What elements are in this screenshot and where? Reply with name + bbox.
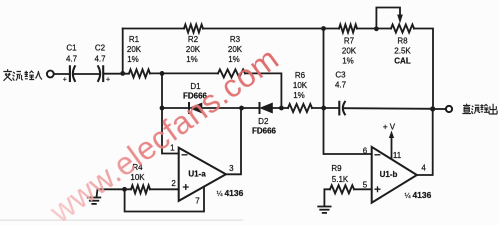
svg-text:C1: C1 [66, 44, 77, 53]
svg-text:7: 7 [195, 197, 200, 206]
node A junction [120, 71, 125, 76]
ground symbol right [318, 207, 330, 213]
label R8 value [394, 37, 411, 66]
svg-text:2.5K: 2.5K [394, 47, 411, 56]
svg-text:CAL: CAL [394, 57, 411, 66]
node B junction [160, 71, 165, 76]
resistor R3 [218, 69, 245, 77]
diode D2 FD666 [260, 103, 273, 113]
label R4 value [130, 163, 145, 182]
label R7 value [342, 37, 357, 66]
svg-text:R8: R8 [397, 37, 408, 46]
wire D1 to D2 [202, 107, 260, 109]
op-amp U1-a [179, 148, 226, 201]
svg-text:1%: 1% [293, 91, 305, 100]
wire R9 to U1-b pin 5 [354, 188, 372, 190]
svg-text:C3: C3 [335, 71, 346, 80]
diode D1 FD666 [189, 103, 202, 113]
label AC input 交流输入 [3, 69, 42, 81]
label C2 value [94, 44, 106, 64]
node R7-R8 junction [374, 26, 379, 31]
node D junction [279, 106, 284, 111]
svg-text:R1: R1 [129, 35, 140, 44]
label R2 value [186, 35, 201, 64]
ground symbol left [88, 189, 101, 204]
wire U1-a output to diode rail [226, 108, 241, 174]
label R9 value [331, 164, 349, 184]
svg-text:10K: 10K [293, 81, 308, 90]
watermark www.elecfans.com [43, 40, 286, 230]
resistor R2 [184, 25, 203, 33]
label R6 value [293, 71, 308, 100]
label C3 value [335, 71, 347, 90]
svg-text:+: + [63, 77, 67, 84]
wire R1 to node B to R3 [150, 72, 218, 74]
svg-text:20K: 20K [228, 45, 243, 54]
capacitor C3 [339, 102, 345, 115]
svg-text:¼ 4136: ¼ 4136 [217, 188, 244, 198]
svg-text:20K: 20K [342, 47, 357, 56]
label D1 FD666 [183, 82, 208, 101]
svg-text:C2: C2 [95, 44, 106, 53]
wire R8 wiper strap [376, 8, 400, 29]
U1-a plus sign [183, 184, 189, 190]
wire C1 to C2 [75, 73, 99, 75]
label R3 value [228, 35, 243, 64]
wire D2 to R6 [272, 107, 288, 109]
svg-text:R6: R6 [295, 71, 306, 80]
wire R7 to R8 [357, 28, 391, 30]
svg-text:R2: R2 [188, 35, 199, 44]
wire top rail middle segment [203, 28, 339, 30]
label C1 value [66, 44, 78, 64]
label D2 FD666 [252, 117, 277, 136]
wire U1-a pin 7 loop [125, 187, 204, 212]
svg-text:5.1K: 5.1K [332, 175, 349, 184]
svg-text:20K: 20K [127, 45, 142, 54]
+V arrowhead [389, 131, 394, 139]
wire C3 to output node [345, 107, 433, 110]
resistor R1 [129, 69, 150, 77]
resistor R4 [131, 185, 150, 193]
svg-text:6: 6 [363, 147, 368, 156]
svg-text:5: 5 [363, 181, 368, 190]
wire C2 to node A and R1 [104, 73, 129, 75]
svg-text:R9: R9 [331, 164, 342, 173]
resistor R9 [330, 185, 354, 193]
svg-text:4.7: 4.7 [66, 55, 78, 64]
svg-text:1%: 1% [127, 55, 139, 64]
wire R4 to U1-a pin 2 [150, 188, 179, 190]
output terminal [446, 106, 452, 112]
svg-text:11: 11 [393, 151, 402, 160]
svg-text:U1-b: U1-b [380, 170, 398, 179]
wire top rail right end down [414, 29, 433, 109]
wire feedback vertical to U1-b pin 6 [324, 29, 372, 155]
wire R3 to bend down to diode rail [245, 73, 281, 108]
label DC output 直流输出 [462, 104, 497, 114]
svg-text:4: 4 [421, 164, 426, 173]
potentiometer R8 [391, 25, 414, 33]
svg-text:2: 2 [171, 179, 176, 188]
input terminal [47, 71, 54, 78]
svg-text:1%: 1% [342, 57, 354, 66]
wire node A up to top rail [122, 29, 124, 74]
resistor R7 [339, 25, 357, 33]
svg-text:R7: R7 [344, 37, 355, 46]
svg-text:4.7: 4.7 [335, 81, 347, 90]
wire U1-b output pin 4 [417, 109, 433, 175]
wire node B down to op-amp U1-a pin 1 [162, 73, 179, 153]
capacitor C2 [98, 66, 103, 81]
svg-text:20K: 20K [186, 45, 201, 54]
svg-text:+: + [106, 77, 110, 84]
svg-text:R3: R3 [230, 35, 241, 44]
resistor R6 [288, 104, 312, 112]
wire input to C1 [54, 73, 69, 75]
wire ground to R4 [98, 188, 132, 190]
node R4 junction [122, 187, 127, 192]
capacitor C1 [70, 66, 75, 81]
svg-text:4.7: 4.7 [94, 55, 106, 64]
node C junction [160, 106, 165, 111]
op-amp U1-b [372, 147, 417, 203]
svg-text:1%: 1% [186, 55, 198, 64]
svg-text:D2: D2 [258, 117, 269, 126]
node F top junction [321, 26, 326, 31]
U1-b plus sign [375, 186, 381, 192]
node G output junction [430, 106, 435, 111]
wire ground to R9 [324, 189, 330, 206]
wire +V supply arrow U1-b pin 11 [391, 135, 393, 159]
svg-text:U1-a: U1-a [188, 170, 206, 179]
U1-a minus sign [182, 154, 188, 156]
svg-text:+ V: + V [383, 123, 396, 132]
wire R6 to C3 [312, 107, 339, 109]
U1-b minus sign [374, 154, 380, 156]
svg-text:3: 3 [229, 164, 234, 173]
node E junction U1-a output [239, 106, 244, 111]
svg-text:¼ 4136: ¼ 4136 [405, 190, 432, 200]
wire diode rail left [162, 107, 189, 109]
node F junction [321, 106, 326, 111]
scan artifact line bottom [0, 220, 243, 221]
wire output tap to terminal [433, 108, 446, 110]
label R1 value [127, 35, 142, 64]
R8 wiper arrowhead [397, 15, 403, 24]
svg-text:FD666: FD666 [252, 127, 277, 136]
wire top rail left segment [123, 28, 184, 30]
